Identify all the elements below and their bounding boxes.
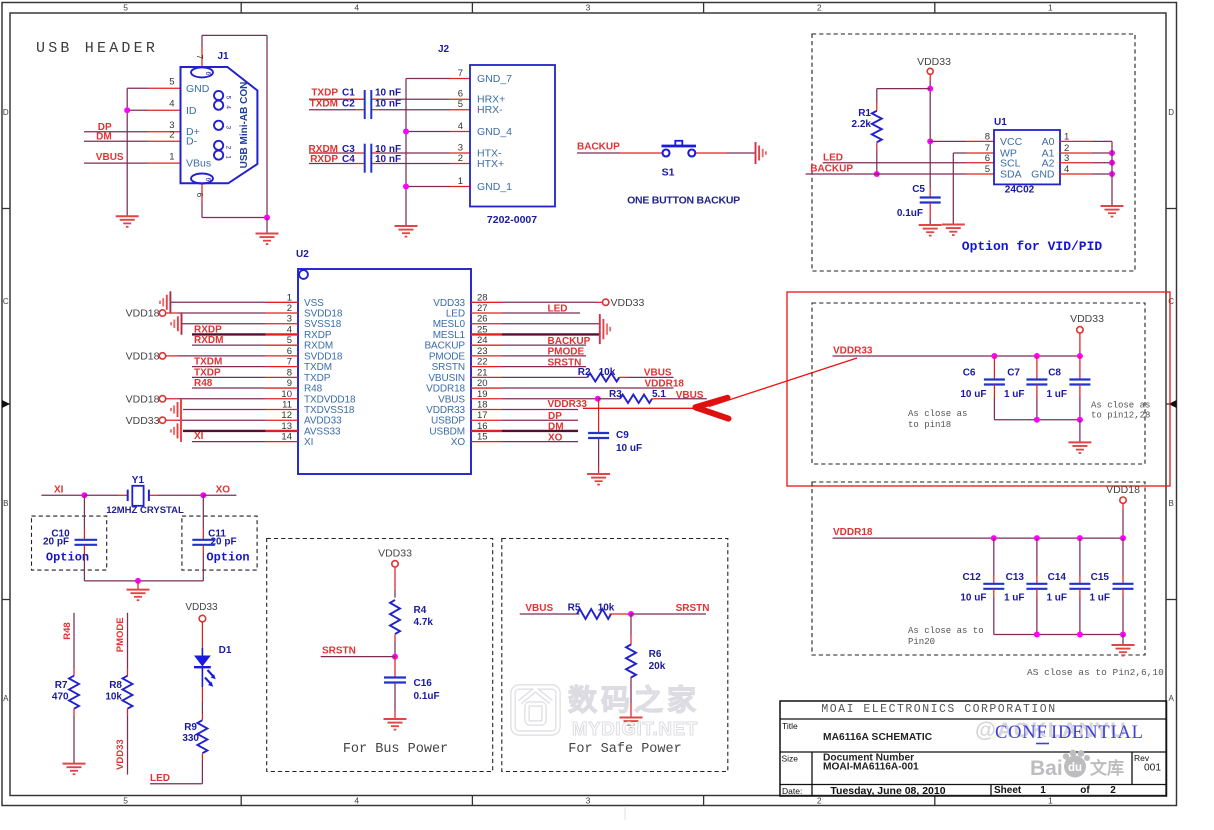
svg-text:1: 1 bbox=[225, 155, 232, 159]
svg-text:C15: C15 bbox=[1091, 572, 1110, 583]
svg-text:As close as to: As close as to bbox=[908, 626, 984, 636]
svg-text:C1: C1 bbox=[342, 88, 355, 99]
svg-text:LED: LED bbox=[446, 309, 465, 320]
svg-text:24C02: 24C02 bbox=[1005, 184, 1035, 195]
svg-text:For Safe Power: For Safe Power bbox=[568, 742, 681, 757]
svg-text:10 uF: 10 uF bbox=[960, 593, 986, 604]
svg-text:1: 1 bbox=[458, 176, 463, 187]
svg-text:4: 4 bbox=[354, 796, 359, 806]
svg-text:2: 2 bbox=[817, 796, 822, 806]
svg-text:RXDP: RXDP bbox=[304, 330, 332, 341]
svg-text:13: 13 bbox=[281, 421, 292, 432]
svg-text:470: 470 bbox=[52, 691, 69, 702]
svg-text:Tuesday, June 08, 2010: Tuesday, June 08, 2010 bbox=[830, 785, 945, 797]
svg-text:001: 001 bbox=[1144, 763, 1161, 774]
svg-text:C13: C13 bbox=[1006, 572, 1025, 583]
svg-text:du: du bbox=[1068, 762, 1082, 774]
svg-text:to pin12,28: to pin12,28 bbox=[1091, 411, 1150, 421]
svg-text:16: 16 bbox=[477, 421, 488, 432]
svg-text:ONE BUTTON BACKUP: ONE BUTTON BACKUP bbox=[627, 195, 740, 207]
svg-text:Y1: Y1 bbox=[132, 475, 145, 486]
svg-text:USBDP: USBDP bbox=[431, 416, 465, 427]
svg-text:GND_4: GND_4 bbox=[477, 126, 512, 138]
svg-text:VDD33: VDD33 bbox=[126, 415, 160, 427]
svg-text:11: 11 bbox=[282, 400, 292, 411]
svg-text:1 uF: 1 uF bbox=[1089, 593, 1110, 604]
svg-text:10k: 10k bbox=[598, 603, 615, 614]
svg-text:TXDP: TXDP bbox=[194, 367, 221, 378]
svg-text:VBUS: VBUS bbox=[525, 603, 553, 614]
svg-text:Option: Option bbox=[46, 551, 89, 565]
svg-text:As close as: As close as bbox=[1091, 401, 1150, 411]
svg-text:1: 1 bbox=[1048, 3, 1053, 13]
svg-text:VBUS: VBUS bbox=[96, 152, 124, 163]
svg-text:6: 6 bbox=[985, 153, 990, 164]
svg-text:10 uF: 10 uF bbox=[960, 389, 986, 400]
svg-text:B: B bbox=[1169, 499, 1174, 508]
svg-text:GND: GND bbox=[186, 83, 210, 95]
svg-text:1 uF: 1 uF bbox=[1046, 389, 1067, 400]
svg-text:12MHZ CRYSTAL: 12MHZ CRYSTAL bbox=[106, 505, 184, 516]
svg-text:MOAI ELECTRONICS CORPORATION: MOAI ELECTRONICS CORPORATION bbox=[821, 703, 1056, 716]
svg-text:TXDP: TXDP bbox=[304, 373, 331, 384]
svg-text:VDDR33: VDDR33 bbox=[548, 399, 588, 410]
svg-text:RXDM: RXDM bbox=[309, 144, 338, 155]
svg-text:SVDD18: SVDD18 bbox=[304, 351, 343, 362]
svg-text:XO: XO bbox=[451, 437, 466, 448]
svg-text:C12: C12 bbox=[962, 572, 981, 583]
svg-text:文库: 文库 bbox=[1090, 758, 1124, 778]
svg-text:R48: R48 bbox=[62, 622, 73, 639]
svg-text:24: 24 bbox=[477, 335, 488, 346]
svg-text:C3: C3 bbox=[342, 144, 355, 155]
svg-text:6: 6 bbox=[458, 89, 463, 100]
svg-text:VDD18: VDD18 bbox=[126, 351, 160, 363]
svg-text:RXDM: RXDM bbox=[304, 341, 333, 352]
svg-text:1 uF: 1 uF bbox=[1046, 593, 1067, 604]
svg-text:6: 6 bbox=[195, 193, 204, 198]
svg-text:8: 8 bbox=[287, 367, 292, 378]
svg-text:10k: 10k bbox=[105, 691, 122, 702]
svg-text:R4: R4 bbox=[414, 605, 427, 616]
svg-text:D: D bbox=[3, 108, 9, 117]
svg-text:LED: LED bbox=[823, 153, 843, 164]
svg-text:R48: R48 bbox=[304, 384, 323, 395]
svg-text:C16: C16 bbox=[414, 678, 433, 689]
svg-text:SRSTN: SRSTN bbox=[322, 646, 356, 657]
svg-text:3: 3 bbox=[1064, 153, 1069, 164]
svg-text:A0: A0 bbox=[1042, 136, 1055, 148]
svg-text:5: 5 bbox=[985, 164, 990, 175]
svg-text:4: 4 bbox=[169, 99, 174, 110]
svg-text:Size: Size bbox=[782, 754, 799, 764]
svg-text:GND_1: GND_1 bbox=[477, 181, 512, 193]
svg-text:5: 5 bbox=[287, 335, 292, 346]
svg-text:330: 330 bbox=[182, 733, 199, 744]
svg-text:DM: DM bbox=[548, 422, 564, 433]
svg-text:SCL: SCL bbox=[1000, 158, 1021, 170]
svg-text:1 uF: 1 uF bbox=[1004, 389, 1025, 400]
svg-text:to pin18: to pin18 bbox=[908, 420, 951, 430]
svg-text:3: 3 bbox=[225, 125, 232, 129]
svg-text:ID: ID bbox=[186, 105, 197, 117]
svg-text:R5: R5 bbox=[568, 603, 581, 614]
svg-text:R48: R48 bbox=[194, 378, 213, 389]
svg-text:XI: XI bbox=[54, 485, 64, 496]
svg-text:10k: 10k bbox=[599, 367, 616, 378]
svg-text:17: 17 bbox=[477, 410, 488, 421]
svg-text:AVDD33: AVDD33 bbox=[304, 416, 342, 427]
svg-text:XI: XI bbox=[304, 437, 313, 448]
svg-text:C14: C14 bbox=[1048, 572, 1067, 583]
svg-text:4: 4 bbox=[458, 121, 463, 132]
svg-text:MA6116A SCHEMATIC: MA6116A SCHEMATIC bbox=[823, 732, 933, 743]
svg-text:7: 7 bbox=[458, 68, 463, 79]
svg-text:10: 10 bbox=[281, 389, 292, 400]
svg-text:PMODE: PMODE bbox=[429, 351, 466, 362]
svg-text:2.2k: 2.2k bbox=[852, 119, 872, 130]
svg-text:14: 14 bbox=[281, 432, 292, 443]
svg-text:Date:: Date: bbox=[782, 786, 802, 796]
svg-text:BACKUP: BACKUP bbox=[810, 164, 853, 175]
svg-text:USB Mini-AB CON: USB Mini-AB CON bbox=[239, 82, 250, 169]
svg-text:8: 8 bbox=[985, 131, 990, 142]
svg-text:1: 1 bbox=[287, 292, 292, 303]
svg-text:6: 6 bbox=[204, 178, 211, 182]
svg-text:U2: U2 bbox=[296, 249, 309, 260]
svg-text:C7: C7 bbox=[1007, 367, 1020, 378]
svg-text:VDD18: VDD18 bbox=[1106, 484, 1140, 496]
svg-text:6: 6 bbox=[204, 72, 211, 76]
svg-text:As close as: As close as bbox=[908, 409, 967, 419]
svg-text:C: C bbox=[3, 297, 9, 306]
svg-text:RXDM: RXDM bbox=[194, 335, 223, 346]
svg-text:A: A bbox=[3, 694, 9, 703]
svg-text:PMODE: PMODE bbox=[548, 347, 585, 358]
svg-text:R9: R9 bbox=[184, 722, 197, 733]
svg-text:D: D bbox=[1168, 108, 1174, 117]
svg-text:A: A bbox=[1169, 694, 1175, 703]
svg-text:6: 6 bbox=[287, 346, 292, 357]
svg-text:DM: DM bbox=[96, 132, 112, 143]
svg-text:VDDR18: VDDR18 bbox=[426, 384, 465, 395]
svg-text:25: 25 bbox=[477, 324, 488, 335]
svg-text:1: 1 bbox=[169, 152, 174, 163]
svg-text:27: 27 bbox=[477, 303, 488, 314]
svg-text:LED: LED bbox=[548, 304, 568, 315]
svg-text:9: 9 bbox=[287, 378, 292, 389]
svg-text:TXDP: TXDP bbox=[311, 88, 338, 99]
svg-text:BACKUP: BACKUP bbox=[424, 341, 465, 352]
svg-text:15: 15 bbox=[477, 432, 488, 443]
svg-text:C9: C9 bbox=[616, 430, 629, 441]
svg-text:0.1uF: 0.1uF bbox=[414, 691, 440, 702]
svg-text:5.1: 5.1 bbox=[652, 389, 666, 400]
svg-text:IDENTIAL: IDENTIAL bbox=[1051, 723, 1144, 743]
svg-text:R2: R2 bbox=[578, 367, 591, 378]
svg-text:TXDVDD18: TXDVDD18 bbox=[304, 394, 356, 405]
svg-text:VBUS: VBUS bbox=[438, 394, 465, 405]
svg-text:10 nF: 10 nF bbox=[375, 99, 401, 110]
svg-text:7: 7 bbox=[195, 55, 204, 60]
svg-text:Pin20: Pin20 bbox=[908, 637, 935, 647]
svg-text:1: 1 bbox=[1048, 796, 1053, 806]
svg-text:2: 2 bbox=[1110, 785, 1116, 796]
svg-text:of: of bbox=[1080, 785, 1090, 796]
svg-text:C4: C4 bbox=[342, 154, 355, 165]
svg-text:C: C bbox=[1168, 297, 1174, 306]
svg-text:MESL1: MESL1 bbox=[433, 330, 466, 341]
svg-text:S1: S1 bbox=[662, 167, 675, 179]
svg-text:VDDR33: VDDR33 bbox=[426, 405, 465, 416]
svg-text:C8: C8 bbox=[1048, 367, 1061, 378]
svg-text:SVDD18: SVDD18 bbox=[304, 309, 343, 320]
svg-text:23: 23 bbox=[477, 346, 488, 357]
svg-text:VDDR33: VDDR33 bbox=[833, 346, 873, 357]
svg-text:GND: GND bbox=[1031, 169, 1055, 181]
svg-text:TXDM: TXDM bbox=[304, 362, 332, 373]
svg-text:XO: XO bbox=[548, 432, 563, 443]
svg-text:VBUSIN: VBUSIN bbox=[428, 373, 465, 384]
svg-text:VBUS: VBUS bbox=[676, 390, 704, 401]
svg-text:SDA: SDA bbox=[1000, 169, 1022, 181]
svg-text:Sheet: Sheet bbox=[994, 785, 1022, 796]
svg-text:4: 4 bbox=[225, 105, 232, 109]
svg-text:XI: XI bbox=[194, 431, 204, 442]
svg-text:VDD33: VDD33 bbox=[917, 56, 951, 68]
svg-text:4.7k: 4.7k bbox=[414, 617, 434, 628]
svg-text:Rev: Rev bbox=[1134, 753, 1150, 763]
svg-text:20: 20 bbox=[477, 378, 488, 389]
svg-text:TXDM: TXDM bbox=[310, 99, 338, 110]
svg-text:4: 4 bbox=[287, 324, 292, 335]
svg-text:R8: R8 bbox=[109, 680, 122, 691]
svg-text:28: 28 bbox=[477, 292, 488, 303]
svg-text:J2: J2 bbox=[438, 44, 450, 55]
svg-text:10 nF: 10 nF bbox=[375, 144, 401, 155]
svg-text:18: 18 bbox=[477, 400, 488, 411]
svg-text:4: 4 bbox=[354, 3, 359, 13]
svg-text:3: 3 bbox=[586, 3, 591, 13]
svg-text:XO: XO bbox=[216, 485, 231, 496]
svg-text:1: 1 bbox=[1040, 785, 1046, 796]
svg-text:20k: 20k bbox=[649, 661, 666, 672]
svg-text:5: 5 bbox=[123, 796, 128, 806]
svg-text:数码之家: 数码之家 bbox=[568, 683, 700, 717]
svg-text:HTX+: HTX+ bbox=[477, 158, 504, 170]
svg-text:AVSS33: AVSS33 bbox=[304, 426, 341, 437]
svg-text:CONF: CONF bbox=[995, 723, 1048, 743]
svg-text:PMODE: PMODE bbox=[115, 617, 126, 652]
svg-text:RXDP: RXDP bbox=[310, 154, 338, 165]
svg-text:VDD33: VDD33 bbox=[115, 739, 126, 770]
svg-text:Title: Title bbox=[782, 721, 798, 731]
svg-text:VDD18: VDD18 bbox=[126, 393, 160, 405]
svg-text:1 uF: 1 uF bbox=[1004, 593, 1025, 604]
svg-text:RXDP: RXDP bbox=[194, 324, 222, 335]
svg-text:D1: D1 bbox=[219, 645, 232, 656]
svg-text:Bai: Bai bbox=[1030, 757, 1063, 780]
svg-text:R7: R7 bbox=[55, 680, 68, 691]
svg-text:VDDR18: VDDR18 bbox=[833, 527, 873, 538]
svg-text:MOAI-MA6116A-001: MOAI-MA6116A-001 bbox=[823, 762, 919, 773]
svg-text:3: 3 bbox=[287, 314, 292, 325]
svg-text:GND_7: GND_7 bbox=[477, 73, 512, 85]
svg-text:AS close as to Pin2,6,10: AS close as to Pin2,6,10 bbox=[1027, 667, 1164, 678]
svg-text:SRSTN: SRSTN bbox=[548, 357, 582, 368]
svg-text:0.1uF: 0.1uF bbox=[897, 208, 923, 219]
svg-text:SRSTN: SRSTN bbox=[432, 362, 465, 373]
svg-text:VBUS: VBUS bbox=[644, 367, 672, 378]
svg-text:C2: C2 bbox=[342, 99, 355, 110]
svg-text:5: 5 bbox=[123, 3, 128, 13]
svg-text:R6: R6 bbox=[649, 649, 662, 660]
svg-text:3: 3 bbox=[586, 796, 591, 806]
svg-text:A2: A2 bbox=[1042, 158, 1055, 170]
svg-text:2: 2 bbox=[458, 153, 463, 164]
svg-text:7: 7 bbox=[287, 357, 292, 368]
svg-text:4: 4 bbox=[1064, 164, 1069, 175]
svg-text:7202-0007: 7202-0007 bbox=[487, 214, 537, 226]
svg-text:BACKUP: BACKUP bbox=[577, 142, 620, 153]
svg-text:10 nF: 10 nF bbox=[375, 88, 401, 99]
svg-text:VDD33: VDD33 bbox=[1070, 313, 1104, 325]
svg-text:VDD33: VDD33 bbox=[433, 298, 465, 309]
svg-text:12: 12 bbox=[281, 410, 292, 421]
svg-text:2: 2 bbox=[287, 303, 292, 314]
svg-text:10 nF: 10 nF bbox=[375, 154, 401, 165]
svg-text:SVSS18: SVSS18 bbox=[304, 319, 342, 330]
svg-text:C6: C6 bbox=[963, 367, 976, 378]
svg-text:USBDM: USBDM bbox=[429, 426, 465, 437]
svg-text:VDD18: VDD18 bbox=[126, 308, 160, 320]
svg-text:VDD33: VDD33 bbox=[378, 548, 412, 560]
svg-text:5: 5 bbox=[458, 99, 463, 110]
svg-text:C5: C5 bbox=[912, 184, 925, 195]
svg-text:TXDM: TXDM bbox=[194, 357, 222, 368]
svg-text:D-: D- bbox=[186, 136, 198, 148]
svg-text:3: 3 bbox=[458, 142, 463, 153]
svg-text:VDD33: VDD33 bbox=[185, 602, 218, 613]
svg-text:21: 21 bbox=[477, 367, 488, 378]
svg-text:MESL0: MESL0 bbox=[433, 319, 466, 330]
svg-text:22: 22 bbox=[477, 357, 488, 368]
svg-text:HRX-: HRX- bbox=[477, 104, 503, 116]
svg-text:VDD33: VDD33 bbox=[611, 297, 645, 309]
svg-text:For Bus Power: For Bus Power bbox=[343, 742, 448, 757]
svg-text:2: 2 bbox=[225, 146, 232, 150]
svg-text:TXDVSS18: TXDVSS18 bbox=[304, 405, 355, 416]
svg-text:U1: U1 bbox=[994, 117, 1007, 128]
svg-text:USB HEADER: USB HEADER bbox=[36, 40, 158, 57]
svg-text:2: 2 bbox=[169, 130, 174, 141]
svg-text:J1: J1 bbox=[217, 51, 229, 62]
svg-text:DP: DP bbox=[548, 411, 562, 422]
svg-text:VSS: VSS bbox=[304, 298, 324, 309]
svg-text:SRSTN: SRSTN bbox=[676, 603, 710, 614]
svg-text:1: 1 bbox=[1064, 131, 1069, 142]
svg-text:LED: LED bbox=[150, 773, 170, 784]
svg-text:26: 26 bbox=[477, 314, 488, 325]
svg-text:2: 2 bbox=[817, 3, 822, 13]
svg-text:20 pF: 20 pF bbox=[43, 537, 69, 548]
svg-text:BACKUP: BACKUP bbox=[548, 336, 591, 347]
svg-text:Option for VID/PID: Option for VID/PID bbox=[962, 239, 1103, 254]
svg-text:B: B bbox=[3, 499, 8, 508]
svg-text:MYDIGIT.NET: MYDIGIT.NET bbox=[572, 718, 698, 739]
svg-text:10 uF: 10 uF bbox=[616, 443, 642, 454]
svg-text:R1: R1 bbox=[858, 108, 871, 119]
svg-text:VCC: VCC bbox=[1000, 136, 1023, 148]
svg-text:VBus: VBus bbox=[186, 158, 211, 170]
svg-text:5: 5 bbox=[169, 77, 174, 88]
svg-text:Option: Option bbox=[206, 551, 249, 565]
svg-text:VDDR18: VDDR18 bbox=[645, 379, 685, 390]
svg-text:5: 5 bbox=[225, 96, 232, 100]
svg-text:R3: R3 bbox=[609, 389, 622, 400]
svg-text:19: 19 bbox=[477, 389, 488, 400]
